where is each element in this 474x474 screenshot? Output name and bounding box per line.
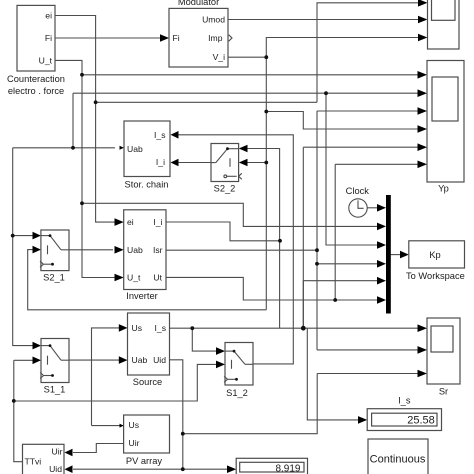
svg-text:Modulator: Modulator — [178, 0, 219, 7]
svg-text:electro . force: electro . force — [8, 86, 64, 96]
svg-text:PV array: PV array — [126, 456, 163, 466]
svg-text:I_s: I_s — [154, 130, 165, 140]
svg-text:ei: ei — [127, 217, 134, 227]
svg-text:Counteraction: Counteraction — [7, 74, 65, 84]
svg-text:S1_1: S1_1 — [44, 385, 66, 395]
svg-text:Ut: Ut — [153, 273, 162, 283]
svg-text:Uab: Uab — [127, 245, 143, 255]
svg-text:TTvi: TTvi — [25, 457, 42, 467]
svg-text:I_s: I_s — [155, 323, 166, 333]
svg-text:25.58: 25.58 — [407, 415, 435, 427]
svg-text:Clock: Clock — [346, 186, 370, 196]
svg-text:To Workspace: To Workspace — [406, 271, 465, 281]
svg-text:ei: ei — [45, 11, 52, 21]
svg-text:U_t: U_t — [127, 273, 141, 283]
svg-text:U_t: U_t — [39, 55, 53, 65]
svg-text:8.919: 8.919 — [275, 463, 300, 474]
svg-text:Continuous: Continuous — [370, 453, 426, 465]
svg-text:Fi: Fi — [173, 33, 180, 43]
svg-text:Us: Us — [129, 420, 140, 430]
svg-text:V_i: V_i — [213, 52, 226, 62]
svg-text:I_i: I_i — [153, 217, 162, 227]
svg-text:S1_2: S1_2 — [226, 388, 248, 398]
svg-text:Uab: Uab — [132, 355, 148, 365]
svg-text:Inverter: Inverter — [126, 291, 158, 301]
svg-text:Fi: Fi — [45, 33, 52, 43]
svg-text:Us: Us — [132, 323, 143, 333]
svg-text:S2_2: S2_2 — [214, 184, 236, 194]
svg-text:Uid: Uid — [49, 464, 62, 474]
svg-text:I_i: I_i — [156, 157, 165, 167]
svg-text:Kp: Kp — [429, 250, 440, 260]
svg-text:Uir: Uir — [129, 438, 140, 448]
svg-text:Uab: Uab — [127, 144, 143, 154]
svg-text:Yp: Yp — [438, 184, 449, 194]
svg-text:I_s: I_s — [398, 395, 411, 405]
svg-text:Isr: Isr — [153, 245, 163, 255]
svg-text:Stor. chain: Stor. chain — [125, 180, 169, 190]
svg-text:S2_1: S2_1 — [43, 273, 65, 283]
svg-text:Sr: Sr — [439, 386, 448, 396]
svg-text:Imp: Imp — [208, 33, 223, 43]
svg-text:Source: Source — [133, 377, 162, 387]
svg-text:Uir: Uir — [52, 447, 63, 457]
svg-text:Uid: Uid — [153, 355, 166, 365]
svg-text:Umod: Umod — [202, 15, 225, 25]
